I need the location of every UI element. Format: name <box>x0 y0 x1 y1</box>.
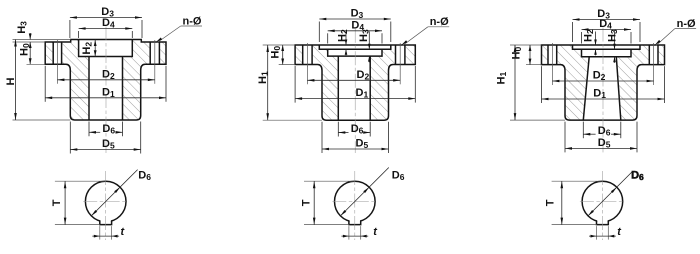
centerlines fig3 <box>580 201 625 203</box>
dimension t fig2 <box>348 226 350 240</box>
centerline fig3 <box>602 28 604 153</box>
washer recess D4 fig3 <box>582 49 632 57</box>
bore circle D6 view fig3 <box>582 181 623 222</box>
shallow recess D3 fig3 <box>573 45 641 49</box>
dimension D4 fig1 <box>78 31 80 38</box>
bolt hole right fig2 <box>395 45 397 65</box>
dimension H0 flange height fig2 <box>263 44 295 46</box>
svg-text:D3: D3 <box>351 8 364 21</box>
svg-text:H1: H1 <box>257 71 270 84</box>
shallow recess D3 fig2 <box>319 45 391 49</box>
svg-text:D6: D6 <box>138 170 151 183</box>
dimension T fig2 <box>304 180 355 182</box>
dimension H2 recess depth fig1 <box>94 40 96 57</box>
svg-text:H2: H2 <box>582 29 595 42</box>
centerline fig1 <box>105 27 107 154</box>
tapered bore walls fig3 <box>583 57 589 120</box>
svg-text:H0: H0 <box>511 47 524 60</box>
outer profile outline fig2 <box>295 45 415 120</box>
dimension D3 fig2 <box>318 22 320 43</box>
dimension D6 leader fig1 <box>91 170 137 216</box>
dimension H total height fig1 <box>13 119 71 121</box>
bore circle D6 view fig2 <box>335 181 376 222</box>
counterbore recess D4 fig1 <box>79 40 133 57</box>
svg-text:D4: D4 <box>599 18 612 31</box>
dimension T fig3 <box>552 180 603 182</box>
dimension D4 fig3 <box>581 32 583 44</box>
dimension H2 recess depth fig2 <box>345 32 347 46</box>
dimension D2 bolt circle fig1 <box>56 66 58 84</box>
keyway slot fig3 <box>597 221 609 225</box>
svg-text:D6: D6 <box>598 125 611 138</box>
centerlines fig1 <box>83 201 128 203</box>
svg-text:H0: H0 <box>19 43 32 56</box>
svg-text:D6: D6 <box>351 123 364 136</box>
keyway slot fig2 <box>349 221 361 225</box>
dimension D6 bore fig1 <box>88 122 90 137</box>
centerlines fig2 <box>332 201 377 203</box>
svg-text:D5: D5 <box>356 137 369 150</box>
dimension H3 recess depth fig2 <box>368 32 370 50</box>
dimension D6 leader fig3 <box>588 172 632 216</box>
dimension H0 flange height fig1 <box>27 63 46 65</box>
dimension D6 leader fig2 <box>340 168 388 216</box>
dimension D6 bore fig2 <box>337 122 339 137</box>
dimension H0 flange height fig3 <box>510 44 542 46</box>
outer profile outline fig3 <box>542 45 665 120</box>
hub section body (hatched) fig3 <box>542 45 665 120</box>
svg-text:H1: H1 <box>496 72 509 85</box>
svg-text:H0: H0 <box>270 46 283 59</box>
svg-text:D6: D6 <box>631 170 644 183</box>
svg-text:D5: D5 <box>598 137 611 150</box>
bore walls fig2 <box>337 56 339 120</box>
dimension D6 bore fig3 <box>582 122 584 139</box>
svg-text:H: H <box>5 78 17 86</box>
svg-text:n-Ø: n-Ø <box>183 15 202 27</box>
dimension D1 flange diameter fig3 <box>541 66 543 103</box>
svg-text:T: T <box>51 199 63 206</box>
svg-text:D5: D5 <box>102 138 115 151</box>
dimension D5 hub diameter fig2 <box>321 122 323 153</box>
svg-text:D2: D2 <box>593 70 606 83</box>
bolt hole left fig1 <box>52 42 54 64</box>
dimension H3 boss height fig1 <box>13 39 71 41</box>
bolt hole left fig3 <box>547 45 549 65</box>
svg-text:D6: D6 <box>392 170 405 183</box>
dimension H1 total height fig2 <box>263 119 322 121</box>
svg-text:D6: D6 <box>102 123 115 136</box>
svg-text:T: T <box>300 199 312 206</box>
hub section body (hatched) fig1 <box>45 40 166 121</box>
dimension H2 recess depth fig3 <box>595 32 597 46</box>
svg-text:D4: D4 <box>102 17 115 30</box>
dimension D4 fig2 <box>327 33 329 43</box>
dimension t fig1 <box>99 226 101 240</box>
svg-text:T: T <box>545 199 557 206</box>
svg-text:n-Ø: n-Ø <box>677 18 696 30</box>
dimension D5 hub diameter fig1 <box>69 122 71 154</box>
svg-text:H3: H3 <box>606 29 619 42</box>
bore circle D6 view fig1 <box>85 181 126 222</box>
dimension H3 recess depth fig3 <box>614 32 616 50</box>
svg-text:H3: H3 <box>16 21 29 34</box>
dimension D1 flange diameter fig1 <box>44 66 46 102</box>
svg-text:D2: D2 <box>357 69 370 82</box>
svg-text:H3: H3 <box>358 29 371 42</box>
keyway slot fig1 <box>100 221 112 225</box>
dimension D1 flange diameter fig2 <box>294 66 296 103</box>
bolt hole right fig1 <box>149 42 151 64</box>
centerline fig2 <box>354 29 356 153</box>
dimension D2 bolt circle fig2 <box>306 66 308 84</box>
svg-text:H2: H2 <box>336 29 349 42</box>
svg-text:D1: D1 <box>102 86 115 99</box>
dimension t fig3 <box>596 226 598 240</box>
svg-text:H2: H2 <box>81 42 94 55</box>
bolt hole right fig3 <box>648 45 650 65</box>
dimension D3 fig1 <box>69 20 71 38</box>
dimension T fig1 <box>55 180 106 182</box>
svg-text:D1: D1 <box>356 87 369 100</box>
dimension D3 fig3 <box>572 22 574 42</box>
bolt hole left fig2 <box>302 45 304 65</box>
dimension D2 bolt circle fig3 <box>551 66 553 85</box>
svg-text:D1: D1 <box>593 88 606 101</box>
dimension H1 total height fig3 <box>510 119 565 121</box>
outer profile outline fig1 <box>45 40 166 121</box>
bore walls fig1 <box>88 57 90 121</box>
dimension D5 hub diameter fig3 <box>564 122 566 153</box>
washer recess D4 fig2 <box>328 49 382 56</box>
svg-text:D2: D2 <box>102 68 115 81</box>
svg-text:n-Ø: n-Ø <box>430 16 449 28</box>
hub section body (hatched) fig2 <box>295 45 415 120</box>
